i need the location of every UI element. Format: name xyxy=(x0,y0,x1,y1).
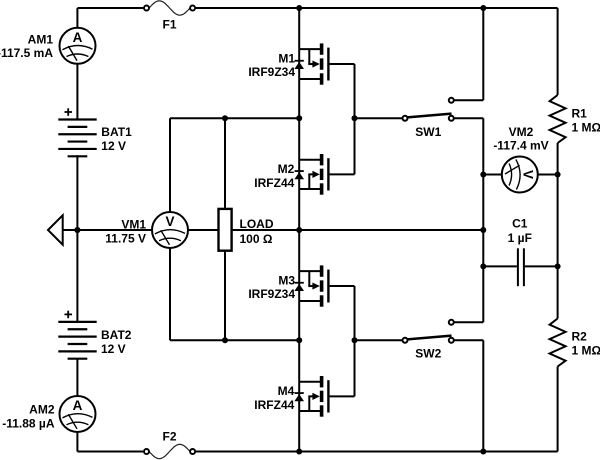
junction top rail at M column xyxy=(296,5,302,11)
transistor M1 IRF9Z34 xyxy=(299,48,322,50)
junction right bus at VM2 xyxy=(480,172,486,178)
svg-text:1 MΩ: 1 MΩ xyxy=(572,344,600,358)
junction right rail at C1 xyxy=(555,263,561,269)
svg-text:SW2: SW2 xyxy=(415,347,441,361)
wire AM2 to bottom rail xyxy=(76,432,78,452)
wire BAT1 to BAT2 through node xyxy=(76,155,78,322)
svg-text:R2: R2 xyxy=(572,330,588,344)
svg-text:12 V: 12 V xyxy=(101,342,126,356)
wire SW2 top throw to right bus xyxy=(454,321,483,323)
svg-text:VM2: VM2 xyxy=(509,125,534,139)
wire C1 right lead xyxy=(525,265,558,267)
svg-text:12 V: 12 V xyxy=(101,139,126,153)
wire gate column M1-M2 xyxy=(354,64,356,174)
node flag triangle on mid rail xyxy=(48,215,63,244)
wire VM1 up to upper link xyxy=(169,118,171,212)
svg-text:-117.5 mA: -117.5 mA xyxy=(0,46,53,60)
svg-text:11.75 V: 11.75 V xyxy=(105,232,146,246)
battery BAT2 xyxy=(58,321,96,323)
svg-text:C1: C1 xyxy=(512,217,528,231)
wire right bus SW1 to SW2 xyxy=(482,118,484,322)
wire gate node to SW1 xyxy=(355,117,403,119)
ammeter AM2 xyxy=(60,396,96,432)
svg-text:F1: F1 xyxy=(162,18,176,32)
svg-text:1 µF: 1 µF xyxy=(508,231,532,245)
junction right rail at VM2 xyxy=(555,172,561,178)
wire gate column M3-M4 xyxy=(354,286,356,396)
junction gate column SW1 xyxy=(352,115,358,121)
svg-text:IRFZ44: IRFZ44 xyxy=(254,398,294,412)
svg-text:BAT1: BAT1 xyxy=(101,125,132,139)
svg-text:M2: M2 xyxy=(278,162,295,176)
wire right rail top segment xyxy=(557,8,559,95)
svg-text:-11.88 µA: -11.88 µA xyxy=(2,416,55,430)
junction mid rail at M column xyxy=(296,227,302,233)
wire gate node to SW2 xyxy=(355,339,403,341)
svg-text:100 Ω: 100 Ω xyxy=(240,232,273,246)
junction gate column SW2 xyxy=(352,337,358,343)
wire VM1 down to lower link xyxy=(169,248,171,340)
ammeter AM1 xyxy=(60,28,96,64)
wire VM2 right lead xyxy=(538,174,558,176)
junction right bus at mid rail xyxy=(480,227,486,233)
wire BAT2 to AM2 xyxy=(76,359,78,396)
svg-text:M4: M4 xyxy=(278,384,295,398)
fuse F1 xyxy=(149,1,190,15)
battery BAT1 xyxy=(58,118,96,120)
switch SW2 xyxy=(407,336,451,340)
fuse F2 xyxy=(149,444,190,458)
wire mid rail VM1 to right bus xyxy=(188,229,484,231)
wire VM2 left lead xyxy=(483,174,502,176)
voltmeter VM2 xyxy=(502,157,538,193)
switch SW1 xyxy=(407,114,451,118)
junction lower link at M column xyxy=(296,337,302,343)
svg-text:AM1: AM1 xyxy=(28,33,54,47)
junction upper link at M column xyxy=(296,115,302,121)
svg-text:R1: R1 xyxy=(572,107,588,121)
svg-text:V: V xyxy=(165,214,174,229)
voltmeter VM1 xyxy=(152,212,188,248)
svg-text:M1: M1 xyxy=(278,51,295,65)
wire top rail left segment xyxy=(77,7,143,9)
svg-text:1 MΩ: 1 MΩ xyxy=(572,121,600,135)
junction top rail at SW1 bus xyxy=(480,5,486,11)
transistor M4 IRFZ44 xyxy=(299,381,322,383)
resistor LOAD box xyxy=(219,209,232,251)
wire AM1 to BAT1 xyxy=(76,64,78,120)
wire right rail bottom segment xyxy=(557,367,559,452)
wire mid rail triangle to VM1 xyxy=(63,229,153,231)
svg-text:IRF9Z34: IRF9Z34 xyxy=(248,287,295,301)
svg-text:VM1: VM1 xyxy=(121,218,146,232)
junction mid rail at left column xyxy=(74,227,80,233)
junction left column at mid rail xyxy=(74,227,80,233)
svg-text:IRFZ44: IRFZ44 xyxy=(254,176,294,190)
svg-text:LOAD: LOAD xyxy=(240,217,274,231)
wire M column xyxy=(298,8,300,452)
capacitor C1 xyxy=(517,248,519,286)
wire lower link rail xyxy=(170,339,299,341)
wire SW2 bottom throw to bottom rail xyxy=(454,339,483,341)
junction right bus at C1 xyxy=(480,263,486,269)
wire LOAD bottom lead xyxy=(224,251,226,341)
svg-text:A: A xyxy=(73,398,83,413)
wire SW1 bottom throw to right bus xyxy=(454,117,483,119)
junction upper link at LOAD column xyxy=(222,115,228,121)
svg-text:V: V xyxy=(521,170,536,179)
wire C1 left lead xyxy=(483,265,517,267)
resistor R2 xyxy=(550,319,566,367)
wire top rail right segment xyxy=(195,7,557,9)
wire bottom rail right segment xyxy=(195,451,557,453)
wire LOAD top lead xyxy=(224,118,226,209)
svg-text:-117.4 mV: -117.4 mV xyxy=(493,139,548,153)
svg-text:A: A xyxy=(73,30,83,45)
wire right rail middle segment xyxy=(557,143,559,319)
junction bottom rail at SW2 bus xyxy=(480,449,486,455)
svg-text:M3: M3 xyxy=(278,273,295,287)
svg-text:IRF9Z34: IRF9Z34 xyxy=(248,65,295,79)
junction lower link at LOAD column xyxy=(222,337,228,343)
transistor M2 IRFZ44 xyxy=(299,159,322,161)
svg-text:AM2: AM2 xyxy=(29,403,55,417)
resistor R1 xyxy=(550,95,566,143)
wire AM1 to top rail xyxy=(76,8,78,28)
wire bottom rail left segment xyxy=(77,451,143,453)
svg-text:SW1: SW1 xyxy=(415,125,441,139)
svg-text:F2: F2 xyxy=(162,430,176,444)
wire SW1 top throw to top rail xyxy=(454,99,483,101)
svg-text:BAT2: BAT2 xyxy=(101,328,132,342)
junction bottom rail at M column xyxy=(296,449,302,455)
wire upper link rail xyxy=(170,117,299,119)
transistor M3 IRF9Z34 xyxy=(299,270,322,272)
